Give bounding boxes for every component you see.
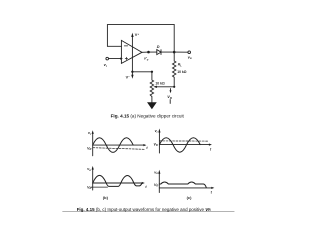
svg-text:v′o: v′o (144, 57, 149, 62)
svg-text:t: t (210, 148, 212, 152)
wire input to plus (109, 58, 121, 60)
node op-amp output (147, 51, 150, 54)
graph c input: dashed VR level (159, 140, 207, 142)
svg-text:10 kΩ: 10 kΩ (155, 81, 165, 85)
wire V- to potentiometer (132, 71, 152, 73)
svg-text:VR: VR (87, 185, 91, 190)
svg-text:t: t (145, 185, 147, 189)
potentiometer 10k (150, 72, 153, 103)
op-amp U1 (121, 40, 142, 63)
VR indicator arrow (170, 89, 172, 91)
svg-text:VR: VR (153, 142, 157, 147)
graph c input: y-axis (158, 132, 160, 153)
graph b input: x-axis (93, 144, 144, 146)
svg-text:vo: vo (87, 167, 91, 172)
resistor RL (173, 52, 176, 87)
caption rule (63, 211, 235, 213)
arrowhead V+ up (131, 33, 133, 37)
node VR tap (173, 86, 175, 88)
svg-text:vo: vo (154, 170, 158, 175)
graph c output: y-axis (158, 173, 160, 193)
graph c input: sine wave (159, 138, 200, 153)
svg-text:t: t (146, 146, 148, 150)
svg-text:10 kΩ: 10 kΩ (177, 70, 187, 74)
VR lower stub (169, 100, 171, 104)
plus sign non-inverting input (125, 57, 127, 59)
minus sign inverting input (124, 45, 127, 47)
svg-text:t: t (211, 190, 213, 194)
supply line V+ (131, 36, 133, 72)
graph b output: clipped waveform (93, 175, 142, 186)
graph b input: dashed VR level (93, 148, 145, 150)
node output junction (173, 51, 176, 54)
diode D (157, 50, 161, 55)
node V- junction (131, 71, 133, 73)
graph b input: y-axis (92, 133, 94, 156)
arrowhead V- down (131, 73, 133, 75)
wire feedback top loop (107, 25, 174, 47)
svg-text:RL: RL (178, 63, 182, 68)
svg-text:D: D (157, 45, 160, 49)
arrowhead at plus input (120, 58, 123, 60)
wire op-amp output (142, 51, 149, 53)
svg-text:vi: vi (88, 131, 91, 136)
svg-text:vi: vi (104, 62, 107, 68)
output terminal vo (188, 51, 191, 54)
svg-text:vi: vi (155, 129, 158, 134)
graph c output: clipped waveform (159, 182, 206, 187)
wire output (174, 51, 188, 53)
graph b output: VR level tick (91, 186, 108, 188)
wire node to diode (150, 51, 157, 53)
svg-text:(c): (c) (187, 195, 193, 200)
svg-text:(b): (b) (103, 195, 109, 200)
node pot top (151, 71, 153, 73)
input terminal vi (106, 57, 109, 60)
ground (148, 103, 156, 109)
svg-text:vo: vo (188, 54, 192, 60)
wire diode to output node (161, 51, 174, 53)
wiper arrow (156, 86, 174, 88)
wire feedback right drop (173, 25, 175, 52)
svg-text:VR: VR (87, 146, 91, 151)
graph b output: x-axis (93, 182, 143, 184)
svg-text:V−: V− (126, 75, 131, 80)
svg-text:VR: VR (167, 95, 172, 100)
graph c output: x-axis (159, 187, 212, 189)
svg-text:V+: V+ (135, 32, 140, 37)
graph b input: sine wave (93, 138, 134, 153)
graph b output: y-axis (92, 169, 94, 190)
graph c input: x-axis (159, 144, 209, 146)
svg-text:VR: VR (154, 183, 158, 188)
wire inverting input (107, 45, 121, 47)
svg-text:Fig. 4.15 (a) Negative clipper: Fig. 4.15 (a) Negative clipper circuit (111, 114, 185, 120)
svg-text:Fig. 4.15 (b, c) Input-output: Fig. 4.15 (b, c) Input-output waveforms … (77, 207, 211, 212)
